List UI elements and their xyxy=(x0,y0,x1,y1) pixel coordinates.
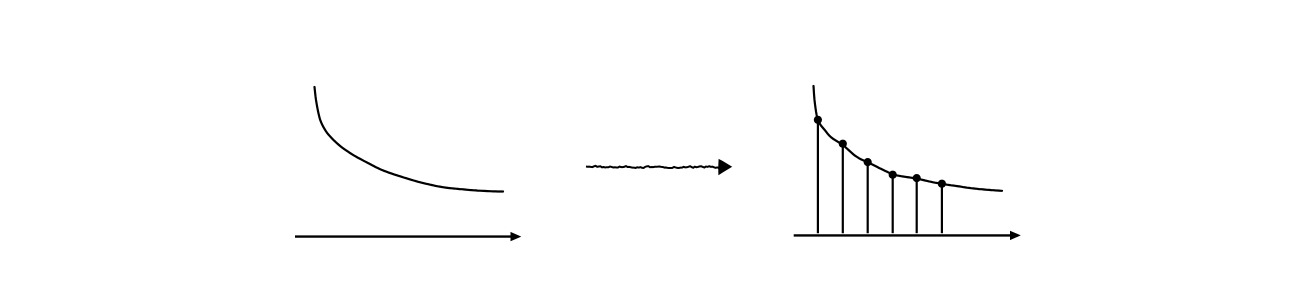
sample stem 5 xyxy=(916,178,918,233)
sample stem 6 xyxy=(941,184,943,234)
left figure: continuous decaying curve xyxy=(315,87,504,192)
sample stem 2 xyxy=(842,144,844,234)
right x-axis arrow shaft xyxy=(794,234,1012,236)
sample dot 4 xyxy=(889,171,897,179)
sample stem 4 xyxy=(892,175,894,234)
sample stem 3 xyxy=(867,162,869,233)
sample dot 1 xyxy=(814,116,822,124)
left x-axis arrow shaft xyxy=(295,235,512,237)
middle mapping arrowhead xyxy=(718,159,732,175)
sample dot 2 xyxy=(839,140,847,148)
sample dot 5 xyxy=(913,174,921,182)
sample dot 3 xyxy=(864,158,872,166)
left x-axis arrowhead xyxy=(511,232,522,241)
middle mapping arrow rough shaft xyxy=(586,166,720,168)
sample dot 6 xyxy=(938,180,946,188)
right figure: sampled decaying curve xyxy=(814,86,1003,191)
sample stem 1 xyxy=(817,120,819,233)
right x-axis arrowhead xyxy=(1010,231,1021,240)
